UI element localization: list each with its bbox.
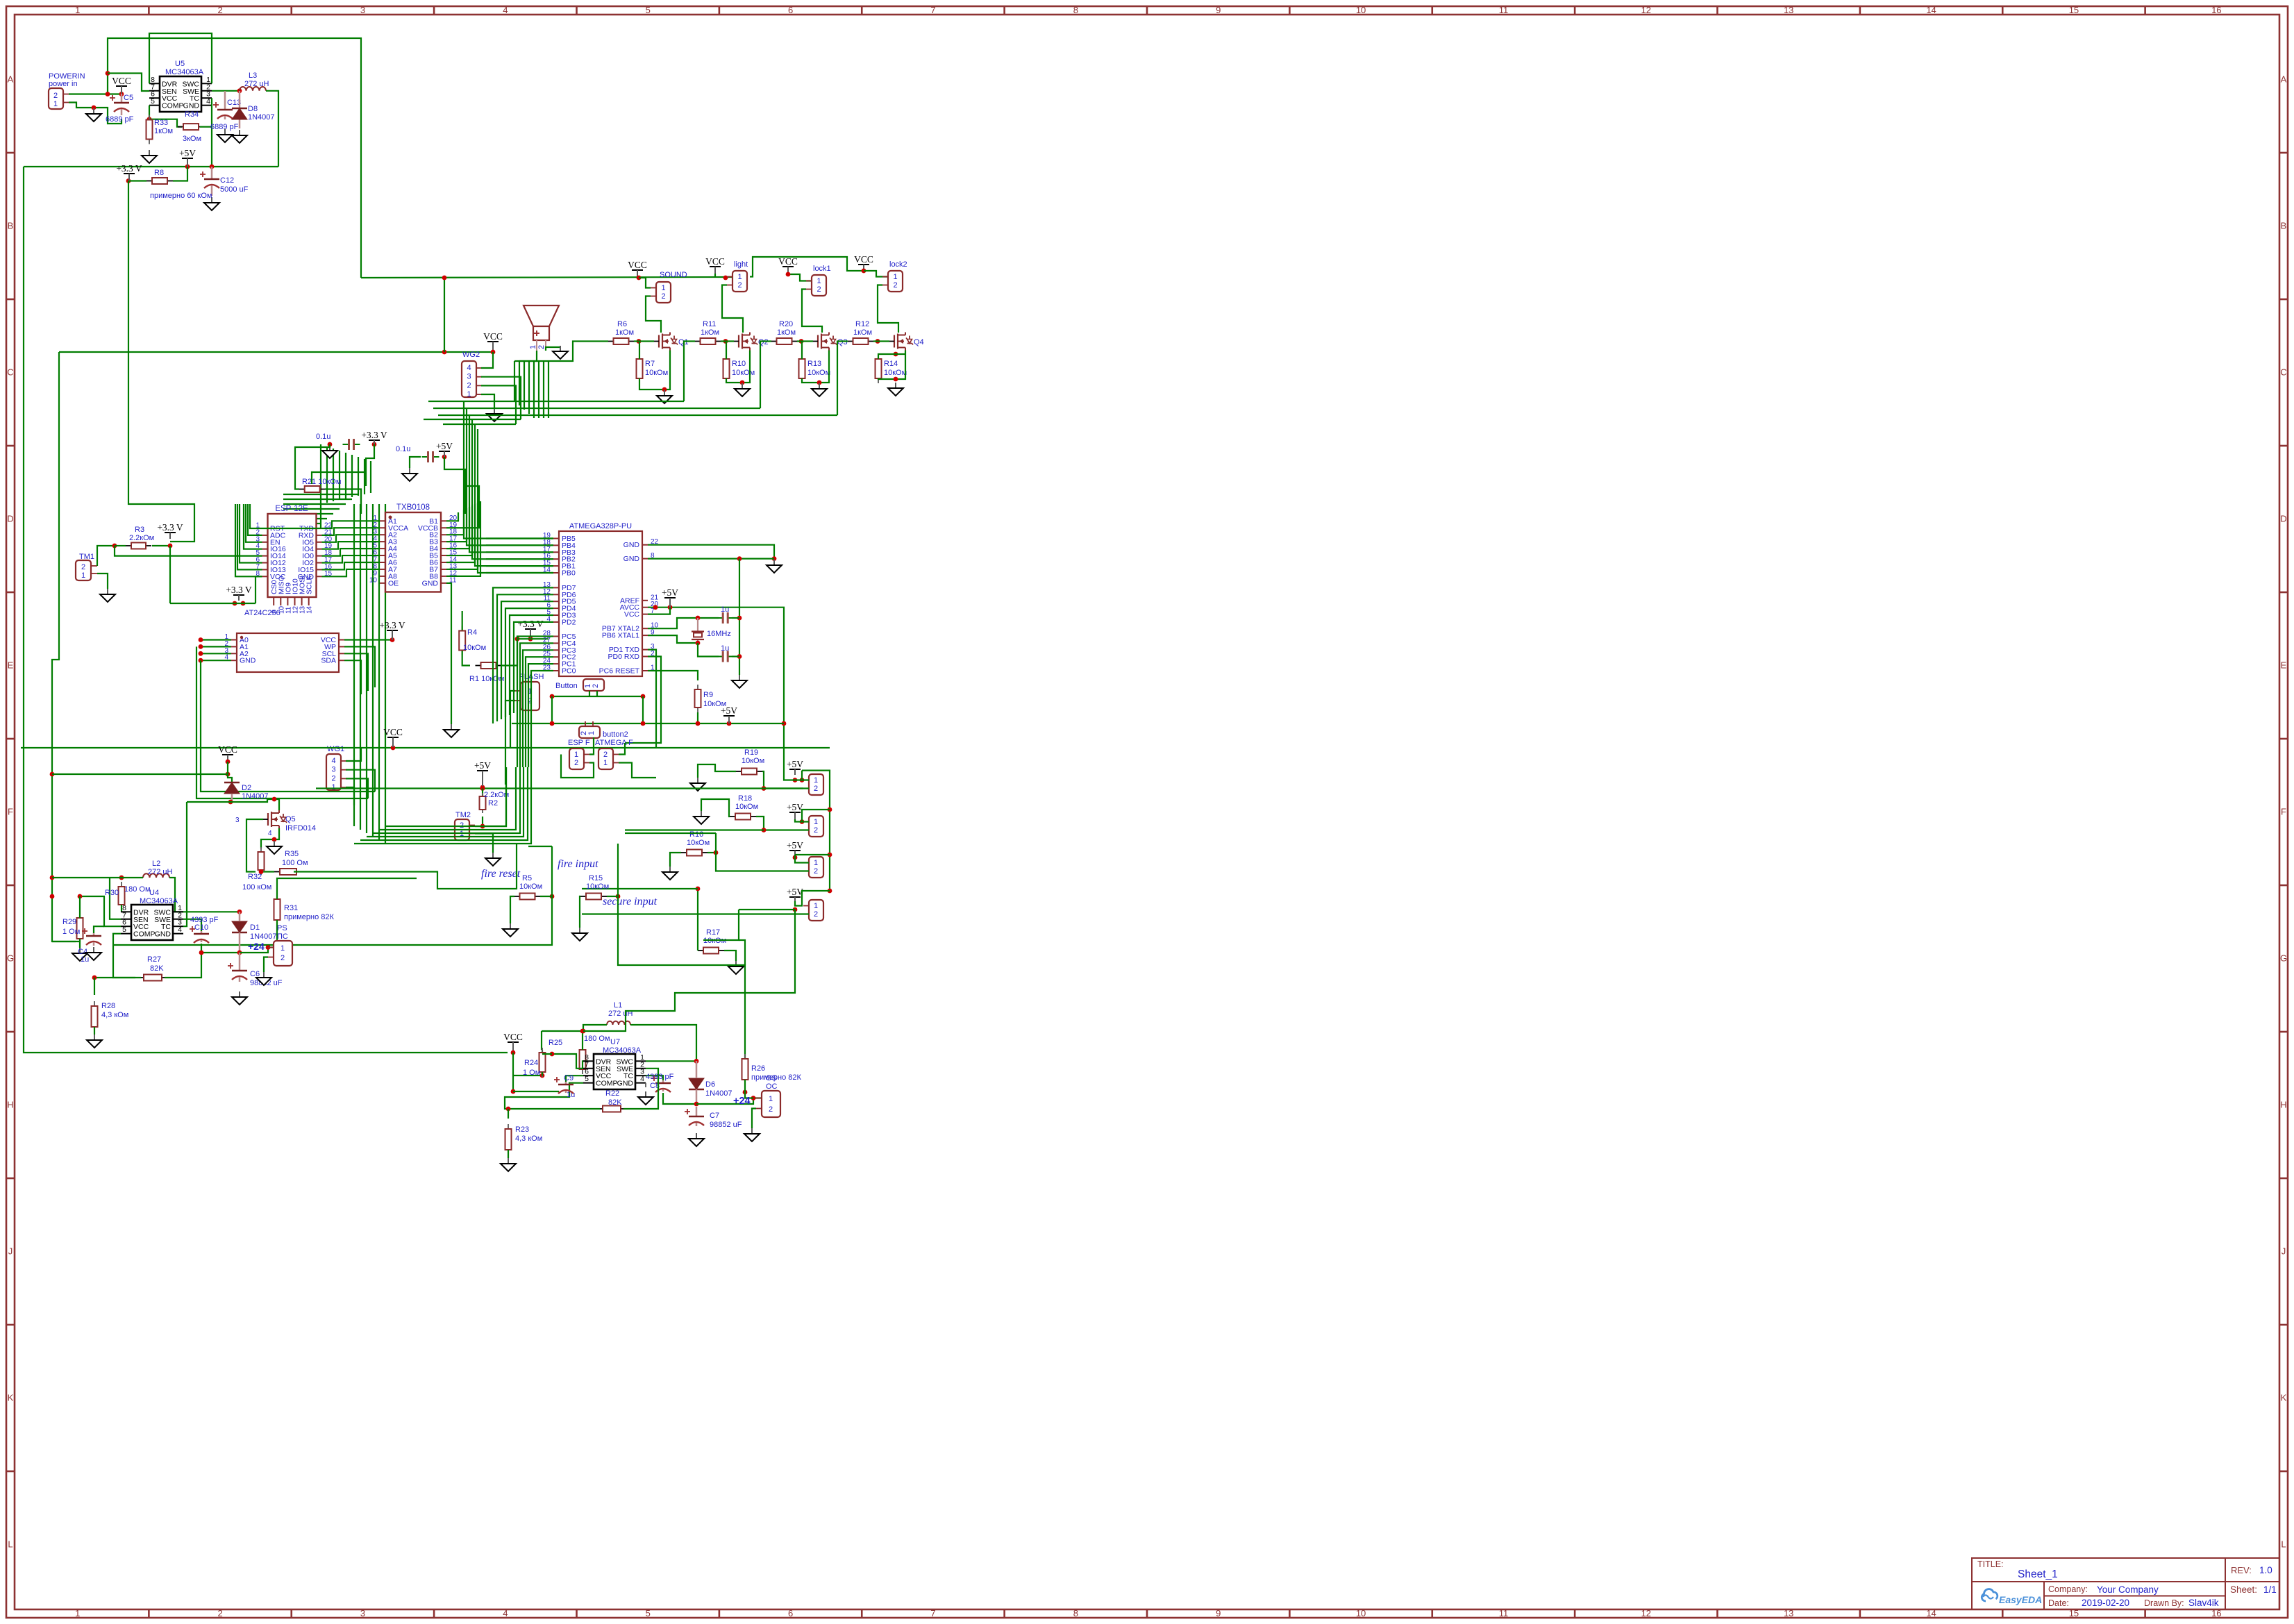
svg-text:1: 1 [893,273,897,281]
IC U4 MC34063A [121,889,183,940]
power flag +3.3 V R1 [517,619,544,639]
junction dots xtal top [696,616,742,621]
inductor L2 [143,860,173,878]
wire VCC D2 stem [228,762,232,782]
resistor R27 [138,955,167,981]
wire xtal bottom to gnd [732,655,739,657]
resistor R31 [274,894,335,925]
svg-text:ПС: ПС [277,932,288,941]
svg-text:R7: R7 [645,360,655,368]
wire L1 to R25 [541,1031,542,1050]
svg-text:R3: R3 [135,526,144,534]
capacitor C10 [190,916,219,943]
transistor Q3 [813,333,848,351]
svg-text:6: 6 [788,1608,793,1618]
junction dot GND22 [772,556,777,561]
wire WG1 pin1 [346,787,354,805]
svg-text:+3.3 V: +3.3 V [157,522,183,533]
ground Q5 [267,841,282,854]
svg-text:R30: R30 [105,889,119,897]
svg-text:K: K [2281,1393,2287,1403]
svg-text:3: 3 [467,373,471,381]
resistor R3 [126,543,151,549]
wire bus bundle B3 horizontals [283,494,358,524]
svg-text:R31: R31 [284,904,298,912]
svg-text:OC: OC [766,1082,778,1091]
wire +3.3V R1 link [517,638,549,639]
sp3 [120,911,122,912]
svg-text:L3: L3 [249,72,257,80]
ground cap2 [402,468,417,481]
svg-text:R2: R2 [488,799,498,807]
svg-text:5: 5 [585,1075,589,1083]
power flag +3.3 V cap1 [361,430,387,444]
IC U5 MC34063A [149,60,212,112]
svg-text:R28: R28 [101,1002,115,1010]
svg-text:VCC: VCC [624,610,640,619]
wire cap2 left gnd [410,457,421,468]
svg-text:4: 4 [206,97,210,106]
svg-text:1N4007: 1N4007 [242,792,269,801]
junction dot R23 top [506,1107,511,1112]
svg-text:R9: R9 [703,691,713,699]
svg-text:R17: R17 [706,928,720,937]
connector OS OC [756,1074,780,1117]
svg-text:2: 2 [603,751,608,759]
wire TXB B pin stubs [446,501,480,576]
junction dots VCC rail y400 [442,276,728,281]
wire out4 pin2 row [582,913,809,914]
wire out4 R26 feed [739,940,745,965]
ground R16 [662,867,678,880]
power flag VCC sound [628,260,647,278]
svg-text:R26: R26 [751,1064,765,1073]
wire TM1 pin1 gnd [97,574,108,589]
wire ESP F pin1 [589,737,594,755]
svg-text:2: 2 [814,910,818,919]
svg-text:13: 13 [1784,1608,1793,1618]
connector WG1 [326,754,346,792]
wire out2 row left [625,829,764,830]
junction dot Q4 gate [876,339,880,344]
wire R5 left gnd [510,896,514,923]
svg-text:1кОм: 1кОм [777,328,796,337]
svg-text:Q5: Q5 [285,815,296,823]
power flag +5V [179,148,196,167]
transistor Q4 [889,333,924,351]
svg-text:10: 10 [1356,5,1366,15]
svg-text:82K: 82K [608,1098,622,1107]
ground C4 [86,947,101,960]
junction dots out1 [793,778,805,782]
svg-text:J: J [8,1246,13,1257]
ground speaker [553,346,568,359]
connector lock2 [882,271,903,292]
wire +3.3V vertical [128,181,194,542]
junction dot R25 top [580,1029,585,1034]
connector Button [555,679,604,696]
wire R11 right [721,340,734,342]
svg-text:7: 7 [930,5,935,15]
label C4 value [81,955,89,964]
connector button2 [579,721,628,739]
wire fire input vertical [112,846,552,945]
wire ESP +3.3 row [170,603,256,604]
svg-text:+24: +24 [248,941,265,952]
svg-text:180 Ом: 180 Ом [124,885,151,894]
svg-text:+5V: +5V [474,760,491,771]
capacitor C5 [106,94,134,124]
wire R23 bottom [508,1150,509,1158]
power flag VCC lock1 [778,256,798,274]
wire ESP IO14 long [115,546,262,556]
svg-text:+5V: +5V [787,887,803,897]
svg-text:+5V: +5V [179,148,196,158]
wire U7 VCC6 [566,1075,583,1085]
svg-text:D2: D2 [242,784,251,792]
ground TM1 [100,589,115,602]
wire lock2 pin2 to Q4 drain [878,285,898,333]
wire D2 row y1155 [187,799,279,810]
resistor R11 [695,320,721,344]
svg-text:GND: GND [183,102,200,110]
wire AT24 SCL [344,653,368,691]
wire L1 left drop [542,1030,583,1032]
svg-text:5: 5 [646,5,651,15]
svg-text:2: 2 [737,281,742,290]
wire TM2 pin2 right [483,767,506,826]
label R5 [519,874,542,891]
svg-text:R20: R20 [779,320,793,328]
junction dot C10 C6 [199,951,204,955]
wire GND8 [648,558,774,559]
svg-text:R14: R14 [884,360,898,368]
wire R16 out down [716,833,809,871]
wire C10 bottom [201,944,240,953]
wire xtal bot link [698,643,719,657]
power flag +5V out1 [787,759,803,775]
connector TM2 [455,811,475,840]
wire R21 top link [312,472,366,484]
wire WG1 pin2 [346,778,368,798]
svg-text:2: 2 [817,285,821,294]
wire AT24 left bus A [196,646,368,798]
wire R19 left [698,764,736,778]
svg-text:10кОм: 10кОм [807,369,830,377]
svg-text:R19: R19 [744,748,758,757]
wire net VCC left drop [24,167,508,1053]
wire D6 leads [696,1061,698,1104]
power flag +5V out4 [787,887,803,901]
svg-text:D1: D1 [250,923,260,932]
resistor R34 [178,110,204,143]
wire R17 row [703,910,739,940]
svg-text:U7: U7 [610,1038,620,1046]
svg-text:16: 16 [2211,5,2221,15]
svg-text:10кОм: 10кОм [519,882,542,891]
svg-text:2: 2 [53,92,58,100]
svg-text:PC6 RESET: PC6 RESET [599,667,640,676]
IC AT24C256 [224,609,344,672]
svg-text:6889 pF: 6889 pF [106,115,134,124]
transistor Q2 [734,333,769,351]
wire C4 top [94,926,104,933]
svg-text:GND: GND [155,930,171,939]
capacitor C xtal 1u bottom [717,644,734,662]
label R15 [586,874,609,891]
svg-text:4393 pF: 4393 pF [646,1073,674,1081]
wire R8 left [128,180,146,181]
wire R3 left lead [115,545,126,546]
svg-text:2: 2 [281,954,285,962]
svg-text:Sheet:: Sheet: [2230,1584,2257,1595]
svg-text:+24: +24 [733,1096,751,1107]
junction dot cap2 [442,455,447,460]
svg-text:C12: C12 [220,176,234,185]
power flag VCC light [705,256,725,274]
wire TXB to ATMEGA links [486,539,553,574]
svg-text:1 Ом: 1 Ом [62,928,80,936]
wire out2 loop [802,810,830,822]
svg-text:+3.3 V: +3.3 V [116,163,142,174]
svg-text:WG2: WG2 [462,351,480,359]
wire bus bundle B2 verticals [321,444,385,844]
wire R16 right [708,852,716,853]
junction dot R24 bot [540,1073,545,1078]
junction dot R15 out [616,894,621,899]
ground POWERIN [86,108,101,122]
resistor R24 [523,1048,546,1077]
svg-text:1N4007: 1N4007 [250,932,277,941]
label WG2 [462,351,480,359]
wire R24 top [542,1050,543,1053]
stub C9 [565,1091,567,1093]
wire y1003 right down [642,696,644,723]
svg-text:PB6 XTAL1: PB6 XTAL1 [602,632,639,640]
wire R17 left [697,889,698,951]
wire gate bus Q1a [424,419,521,420]
svg-text:1: 1 [814,859,818,867]
svg-text:10кОм: 10кОм [463,644,486,652]
svg-text:R15: R15 [589,874,603,882]
svg-text:10кОм: 10кОм [884,369,907,377]
ground R23 [501,1158,516,1171]
wire AT24 WP [344,646,375,687]
wire fire input top [528,846,552,847]
svg-text:1N4007: 1N4007 [705,1089,732,1098]
diode D6 [689,1078,732,1098]
wire xtal top to gnd [732,617,739,619]
svg-text:L1: L1 [614,1001,622,1010]
svg-text:14: 14 [1926,5,1936,15]
wire gate bus b [443,424,516,425]
capacitor C6 [228,953,283,987]
svg-text:R27: R27 [147,955,161,964]
svg-text:ESP-12E: ESP-12E [275,505,308,513]
power flag +5V out3 [787,840,803,855]
svg-text:5000 uF: 5000 uF [220,185,249,194]
wire SEN net [108,74,149,92]
svg-text:R23: R23 [515,1125,529,1134]
svg-text:1: 1 [81,571,85,580]
svg-text:1: 1 [661,284,665,292]
wire R2 bottom to TM2 [475,817,483,826]
svg-text:L2: L2 [152,860,160,868]
wire AT24 SDA [344,660,361,694]
svg-text:R12: R12 [855,320,869,328]
svg-text:2: 2 [769,1105,773,1114]
svg-text:WG1: WG1 [327,745,344,753]
ground R19 [690,778,705,791]
svg-text:10кОм: 10кОм [645,369,668,377]
svg-text:H: H [2280,1100,2286,1110]
wire ATMEGA F pin2 [619,743,625,755]
svg-text:B: B [2281,221,2287,231]
wire R23 link [508,1109,509,1119]
connector ESP F [569,748,589,769]
connector out3 [803,857,823,878]
svg-text:2: 2 [592,684,600,688]
svg-text:5: 5 [122,926,126,934]
wire R4 bottom [462,651,470,666]
junction dot Q3 src [817,380,822,385]
junction dot R17 [696,887,701,891]
wire R2 top [482,789,483,797]
wire SEN riser [110,878,121,919]
junction dot TM2 pin2 [480,824,485,829]
wire R16 row left [625,832,716,834]
svg-text:+5V: +5V [436,441,453,451]
svg-text:VCC: VCC [705,256,725,267]
svg-text:1u: 1u [721,605,729,614]
wire speaker pin2 gnd [546,347,560,351]
wire OC pin2 gnd [752,1109,756,1129]
wire R6 left [519,342,608,362]
svg-text:C7: C7 [710,1112,719,1120]
svg-text:1: 1 [75,1608,80,1618]
svg-text:G: G [2280,953,2287,964]
svg-text:82K: 82K [150,964,164,973]
wire R25 top [582,1031,583,1050]
svg-text:1кОм: 1кОм [154,127,173,135]
junction dots xtal bottom [696,641,742,659]
ground PS [256,972,271,985]
junction dot Q3 gate [799,339,804,344]
resistor R26 [742,1054,802,1085]
svg-text:R22: R22 [605,1089,619,1098]
wire VCC lock2 stem [864,271,888,277]
ground C13 [217,129,233,142]
svg-text:SDA: SDA [321,657,336,665]
svg-text:1: 1 [53,100,58,108]
svg-text:R35: R35 [285,850,299,858]
capacitor C9 [554,1074,575,1099]
junction dot L3 left [237,88,242,93]
wire lock1 pin2 to Q3 drain [802,290,822,333]
svg-text:F: F [2281,807,2286,817]
svg-text:4: 4 [331,757,335,765]
svg-text:fire reset: fire reset [481,868,521,880]
svg-text:secure input: secure input [603,896,658,907]
resistor R10 [723,354,755,383]
label R18 [735,794,758,811]
wire U4 COMP [113,934,135,978]
svg-text:ATMEGA F: ATMEGA F [595,739,633,747]
svg-text:VCC: VCC [628,260,647,270]
wire R29 to VCC6 [80,896,121,926]
wire U7 SWE [646,1069,658,1078]
svg-text:+5V: +5V [787,759,803,769]
junction dots right rail [828,807,832,894]
ground crystal [732,675,747,688]
svg-text:3кОм: 3кОм [183,135,201,143]
junction dot R16 out [714,851,719,855]
junction dots VCC D2 [226,760,231,777]
wire U7 feed right [583,910,795,1031]
capacitor C xtal 1u top [717,605,734,623]
wire D2 anode stub [231,794,233,802]
junction dot D1 out [237,951,242,955]
connector out4 [803,900,823,921]
wire +5V row y1134 [316,787,803,789]
junction dot COMP [147,117,152,122]
svg-text:2: 2 [217,5,222,15]
svg-text:Drawn By:: Drawn By: [2144,1598,2184,1608]
wire Q1 source [639,351,670,390]
wire WG1 pin4 [346,748,361,761]
wire speaker pin1 to bus [514,351,537,361]
wire light pin2 to Q2 drain [722,285,743,333]
wire L1 right [630,1025,696,1061]
wire R28 bottom [94,1027,95,1035]
net label fire input [558,858,598,870]
wire ATMEGA left pin bundles [464,503,553,767]
resistor R12 [848,320,874,344]
svg-text:1: 1 [814,902,818,910]
svg-text:10кОм: 10кОм [735,803,758,811]
ground WG2 [487,408,502,421]
connector SOUND [651,282,671,303]
wire U7 SEN7 [552,1054,583,1069]
svg-text:PD2: PD2 [562,618,576,626]
svg-text:D6: D6 [705,1080,715,1089]
wire U7 vcc to R24 [513,1075,542,1076]
svg-text:light: light [734,260,748,269]
capacitor C4 [78,928,101,956]
wire secure input net [618,844,745,1059]
wire VCC drop x640 [444,278,445,352]
svg-text:1: 1 [467,390,471,399]
svg-text:1u: 1u [721,644,729,653]
svg-text:1кОм: 1кОм [853,328,872,337]
junction dot lock2 VCC [862,269,866,274]
resistor R8 [146,169,212,200]
junction dot out3 [793,855,798,860]
svg-text:GND: GND [623,555,640,563]
resistor R30 [105,882,151,910]
wire WG2 pin4 VCC [481,352,493,368]
svg-text:2019-02-20: 2019-02-20 [2082,1598,2129,1608]
svg-text:B: B [8,221,14,231]
ground cap1 [322,445,337,458]
resistor R15 [580,894,607,900]
wire D1 leads [239,912,241,953]
svg-text:R11: R11 [703,320,716,328]
wire R4 top [462,611,463,630]
svg-text:REV:: REV: [2231,1565,2252,1575]
svg-text:2: 2 [893,281,897,290]
svg-text:A: A [8,74,14,85]
